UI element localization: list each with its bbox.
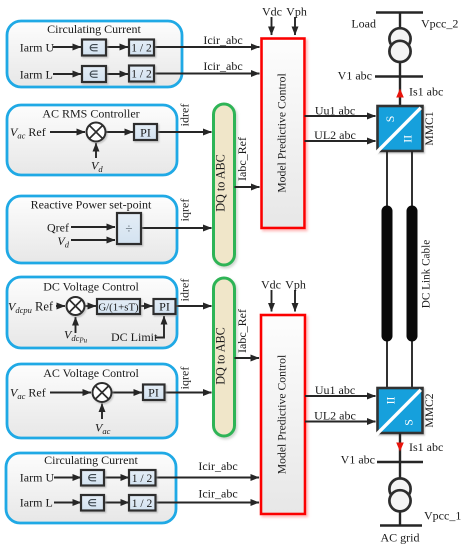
- svg-text:DC Voltage Control: DC Voltage Control: [43, 280, 139, 294]
- svg-text:Vph: Vph: [286, 5, 307, 19]
- svg-text:PI: PI: [148, 386, 159, 400]
- svg-text:S: S: [402, 419, 416, 426]
- svg-text:Iarm U: Iarm U: [20, 471, 55, 485]
- svg-text:II: II: [384, 397, 398, 405]
- svg-text:÷: ÷: [125, 221, 132, 236]
- svg-text:DQ to ABC: DQ to ABC: [214, 327, 228, 385]
- svg-text:1 / 2: 1 / 2: [131, 43, 152, 55]
- svg-text:1 / 2: 1 / 2: [132, 473, 153, 485]
- svg-text:Uu1 abc: Uu1 abc: [315, 383, 355, 397]
- svg-text:Vpcc_2: Vpcc_2: [421, 17, 458, 31]
- svg-text:1 / 2: 1 / 2: [131, 69, 152, 81]
- svg-text:Vph: Vph: [285, 278, 306, 292]
- svg-text:Is1 abc: Is1 abc: [409, 85, 443, 99]
- svg-text:UL2 abc: UL2 abc: [314, 128, 356, 142]
- svg-text:Vdc: Vdc: [261, 278, 281, 292]
- svg-text:AC Voltage Control: AC Voltage Control: [43, 366, 139, 380]
- svg-text:Vdc: Vdc: [262, 5, 282, 19]
- svg-text:iqref: iqref: [178, 199, 192, 222]
- svg-text:idref: idref: [178, 104, 192, 127]
- svg-text:G/(1+sT): G/(1+sT): [98, 302, 139, 314]
- svg-text:Model Predictive Control: Model Predictive Control: [276, 73, 289, 193]
- svg-text:S: S: [383, 116, 397, 123]
- svg-text:Iarm L: Iarm L: [20, 68, 53, 82]
- svg-text:MMC2: MMC2: [423, 393, 436, 427]
- svg-text:Iabc_Ref: Iabc_Ref: [235, 137, 249, 181]
- svg-text:Iabc_Ref: Iabc_Ref: [235, 309, 249, 353]
- svg-text:Circulating Current: Circulating Current: [44, 453, 138, 467]
- svg-text:idref: idref: [178, 279, 192, 302]
- svg-text:PI: PI: [159, 300, 170, 314]
- svg-text:Vac Ref: Vac Ref: [10, 386, 46, 402]
- svg-text:Vdcpu Ref: Vdcpu Ref: [8, 300, 54, 316]
- svg-text:Qref: Qref: [47, 221, 69, 235]
- svg-text:II: II: [401, 135, 415, 143]
- svg-text:DC Limit: DC Limit: [111, 330, 158, 344]
- svg-text:Circulating Current: Circulating Current: [47, 22, 141, 36]
- svg-text:Vpcc_1: Vpcc_1: [424, 509, 461, 523]
- svg-text:Iarm L: Iarm L: [20, 496, 53, 510]
- svg-text:Reactive Power set-point: Reactive Power set-point: [31, 198, 152, 212]
- svg-text:Icir_abc: Icir_abc: [198, 487, 237, 501]
- svg-text:Icir_abc: Icir_abc: [203, 59, 242, 73]
- svg-text:PI: PI: [140, 126, 151, 140]
- svg-text:Icir_abc: Icir_abc: [198, 459, 237, 473]
- svg-text:Icir_abc: Icir_abc: [203, 33, 242, 47]
- svg-text:1 / 2: 1 / 2: [132, 498, 153, 510]
- svg-text:V1 abc: V1 abc: [341, 453, 375, 467]
- svg-text:Is1 abc: Is1 abc: [409, 440, 443, 454]
- svg-text:AC RMS Controller: AC RMS Controller: [42, 107, 139, 121]
- svg-text:V1 abc: V1 abc: [338, 69, 372, 83]
- svg-text:Load: Load: [351, 17, 376, 31]
- svg-text:Vac Ref: Vac Ref: [10, 125, 46, 141]
- svg-text:Model Predictive Control: Model Predictive Control: [276, 354, 289, 474]
- svg-text:Iarm U: Iarm U: [20, 41, 55, 55]
- svg-text:DC Link Cable: DC Link Cable: [421, 240, 433, 308]
- svg-text:iqref: iqref: [178, 367, 192, 390]
- svg-text:Uu1 abc: Uu1 abc: [315, 104, 355, 118]
- svg-text:UL2 abc: UL2 abc: [314, 409, 356, 423]
- svg-text:DQ to ABC: DQ to ABC: [214, 154, 228, 212]
- svg-text:AC grid: AC grid: [381, 531, 420, 545]
- svg-text:MMC1: MMC1: [423, 111, 436, 145]
